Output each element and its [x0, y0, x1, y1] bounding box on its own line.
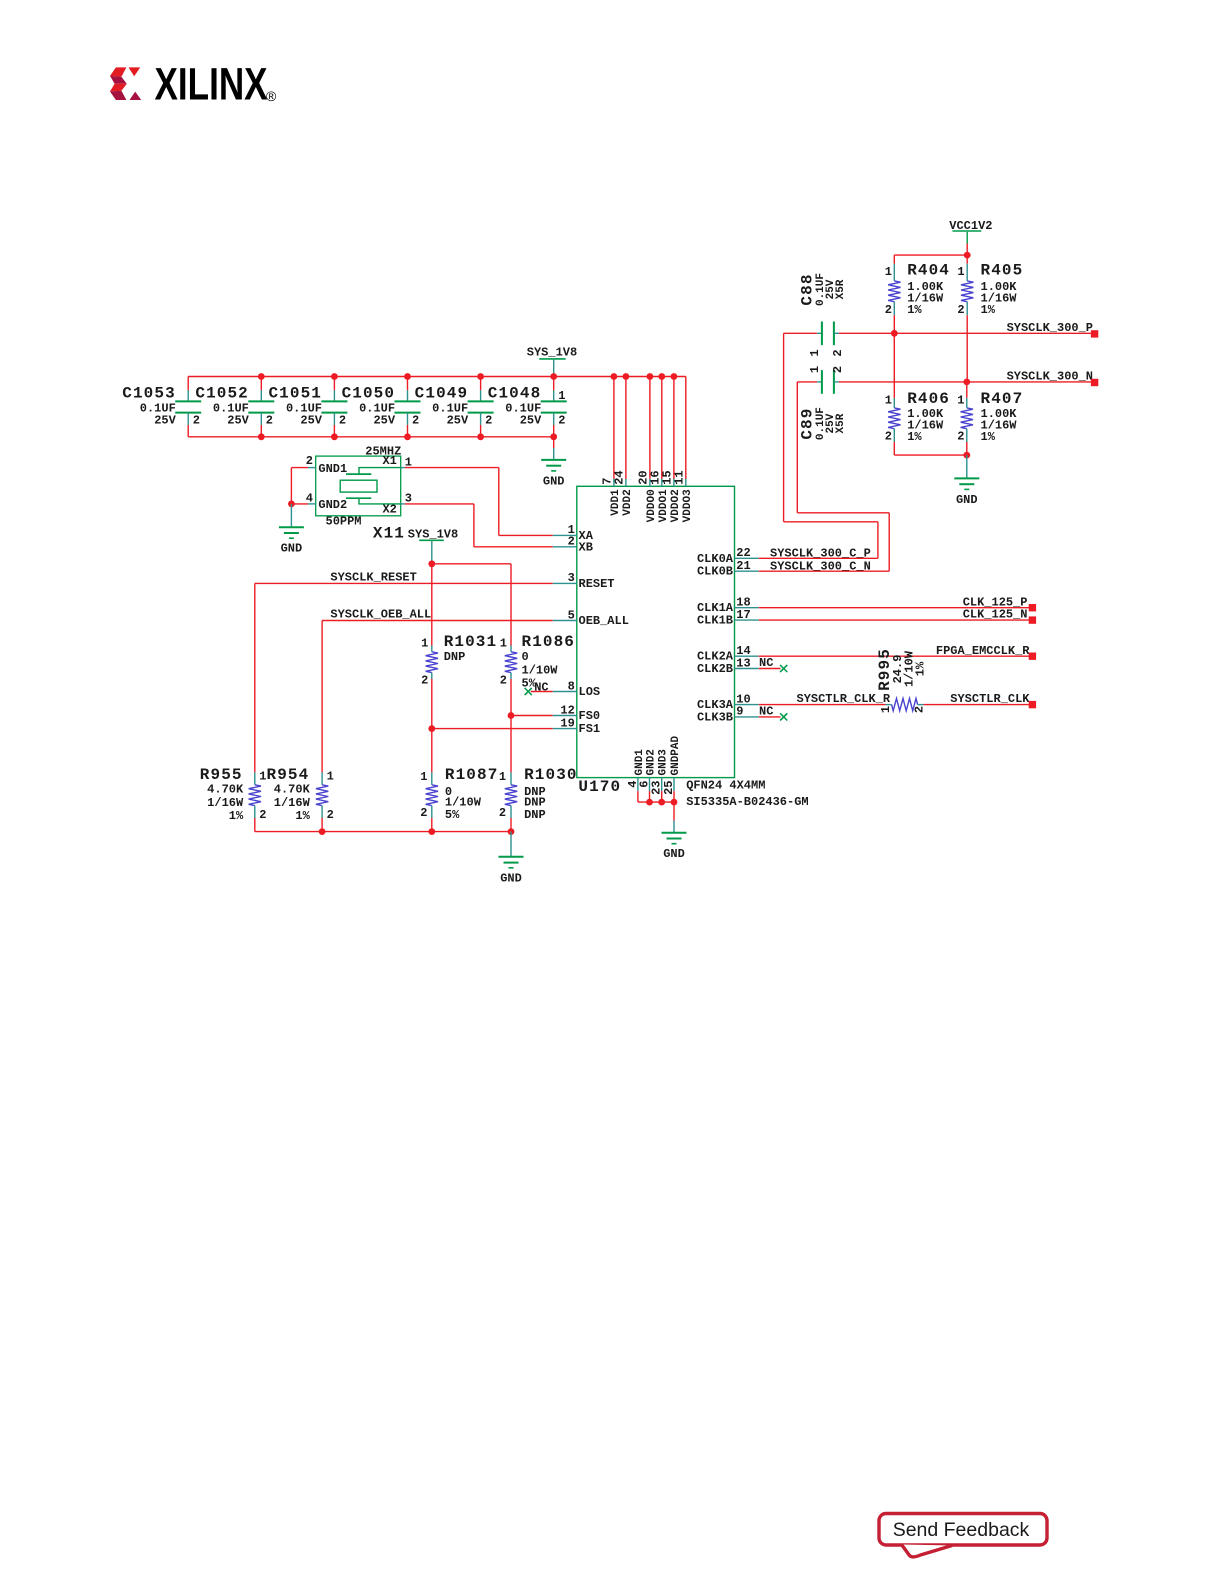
svg-text:C88: C88 — [799, 273, 817, 305]
svg-text:2: 2 — [568, 535, 575, 549]
pin 13 CLK2B — [697, 656, 759, 676]
svg-text:25V: 25V — [447, 414, 469, 428]
svg-text:1: 1 — [558, 389, 565, 403]
svg-text:19: 19 — [560, 716, 574, 730]
wire chip gnd down — [673, 802, 675, 820]
svg-text:R1086: R1086 — [522, 633, 576, 651]
svg-text:1%: 1% — [907, 430, 922, 444]
wire VDD supply to pin 20 — [649, 377, 651, 480]
svg-text:22: 22 — [736, 546, 750, 560]
power net VCC1V2 — [949, 219, 992, 244]
capacitor C1048 — [488, 377, 567, 437]
wire CLK2A to FPGA_EMCCLK_R — [759, 655, 1029, 657]
svg-text:2: 2 — [885, 303, 892, 317]
svg-text:50PPM: 50PPM — [326, 515, 362, 529]
wire GNDPAD stub to rail — [673, 791, 675, 802]
svg-text:NC: NC — [534, 681, 548, 695]
svg-text:X1: X1 — [382, 454, 396, 468]
pin 1 XA — [553, 523, 594, 543]
resistor R995 — [876, 648, 928, 713]
wire VCC1V2 down to junction — [966, 244, 968, 256]
wire GND1 pin2 to ground — [291, 468, 315, 504]
no-connect CLK2B — [759, 656, 788, 672]
svg-text:CLK0A: CLK0A — [697, 552, 734, 566]
wire C88 to CLK0A loop — [784, 333, 878, 558]
svg-text:U170: U170 — [578, 778, 621, 796]
svg-text:C1051: C1051 — [268, 384, 322, 402]
svg-text:2: 2 — [831, 366, 845, 373]
wire SYS_1V8 top bus — [188, 376, 686, 378]
svg-text:GND: GND — [281, 542, 303, 556]
ground GND (crystal) — [279, 527, 304, 556]
pin 5 OEB_ALL — [553, 608, 629, 628]
Xilinx logo mark — [110, 67, 141, 100]
svg-text:1: 1 — [885, 265, 892, 279]
wire GND2 pin4 to ground — [291, 503, 315, 505]
svg-text:25V: 25V — [520, 414, 542, 428]
power net SYS_1V8 — [527, 345, 577, 376]
node R406/R407 gnd junction — [963, 452, 970, 459]
svg-text:R1030: R1030 — [524, 766, 578, 784]
svg-text:C1052: C1052 — [195, 384, 249, 402]
pin 17 CLK1B — [697, 608, 759, 628]
svg-text:25V: 25V — [154, 414, 176, 428]
resistor R404 — [885, 255, 950, 333]
svg-text:1/10W: 1/10W — [522, 663, 559, 677]
wire chip gnd rail — [638, 801, 674, 803]
op-amp U1 equivalent: IC U170 body — [577, 486, 735, 777]
node rail R1087 — [428, 828, 435, 835]
pin 25 GNDPAD — [662, 735, 682, 794]
svg-text:X5R: X5R — [835, 279, 847, 299]
wire rail down to GND — [510, 832, 512, 857]
node rail R954 — [319, 828, 326, 835]
wire VDD supply to pin 7 — [613, 377, 615, 480]
node C1050 bottom bus junction — [404, 433, 411, 440]
capacitor C89 — [799, 366, 847, 440]
svg-text:CLK2B: CLK2B — [697, 662, 733, 676]
svg-text:1: 1 — [885, 394, 892, 408]
svg-text:SYSCLK_OEB_ALL: SYSCLK_OEB_ALL — [330, 608, 431, 622]
svg-text:1: 1 — [500, 636, 507, 650]
svg-text:CLK0B: CLK0B — [697, 565, 733, 579]
svg-text:2: 2 — [421, 674, 428, 688]
svg-text:1: 1 — [327, 770, 334, 784]
svg-text:1: 1 — [957, 394, 964, 408]
svg-text:SYSCLK_300_C_N: SYSCLK_300_C_N — [770, 559, 871, 573]
pin 12 FS0 — [553, 703, 600, 723]
svg-text:CLK_125_N: CLK_125_N — [963, 608, 1028, 622]
svg-text:SYSCTLR_CLK: SYSCTLR_CLK — [950, 692, 1030, 706]
svg-text:FPGA_EMCCLK_R: FPGA_EMCCLK_R — [936, 644, 1030, 658]
wire bottom capacitor bus — [188, 436, 554, 438]
svg-text:VDD1: VDD1 — [610, 489, 622, 516]
pin 7 VDD1 — [601, 478, 622, 516]
svg-text:GNDPAD: GNDPAD — [670, 735, 682, 775]
wire VDD supply to pin 11 — [685, 377, 687, 480]
wire GND1 to rail — [637, 791, 639, 802]
capacitor C1050 — [342, 377, 421, 437]
wire R1031 line to R1087 — [431, 729, 433, 773]
wire CLK0B to SYSCLK_300_C_N — [759, 570, 889, 572]
wire VDD supply to pin 24 — [625, 377, 627, 480]
svg-text:VDDO1: VDDO1 — [658, 489, 670, 522]
node C1051 top bus junction — [331, 373, 338, 380]
pin 14 CLK2A — [697, 644, 759, 664]
node C1052 bottom bus junction — [258, 433, 265, 440]
node bus junction pin 16 — [658, 373, 665, 380]
node R404/C88 junction on SYSCLK_300_P — [891, 330, 898, 337]
wire X1 pin1 to XA — [401, 468, 553, 536]
svg-text:VDDO0: VDDO0 — [646, 489, 658, 522]
wire R1086 line to R1030 — [510, 716, 512, 773]
capacitor C1049 — [415, 377, 494, 437]
resistor R955 — [200, 766, 267, 832]
terminal SYSCTLR_CLK — [1029, 701, 1036, 708]
terminal CLK_125_N — [1029, 616, 1036, 623]
svg-text:1: 1 — [957, 265, 964, 279]
svg-text:R1087: R1087 — [445, 766, 499, 784]
svg-text:GND1: GND1 — [634, 749, 646, 776]
wire CLK3A to R995 — [759, 704, 886, 706]
svg-text:3: 3 — [568, 571, 575, 585]
svg-text:25V: 25V — [300, 414, 322, 428]
node GND2 junction — [646, 799, 653, 806]
svg-text:2: 2 — [500, 674, 507, 688]
svg-text:SYS_1V8: SYS_1V8 — [408, 528, 458, 542]
wire VDD supply to pin 16 — [661, 377, 663, 480]
svg-text:C89: C89 — [799, 408, 817, 440]
svg-text:FS1: FS1 — [579, 722, 601, 736]
Xilinx logo text — [155, 58, 268, 109]
svg-text:12: 12 — [560, 703, 574, 717]
terminal SYSCLK_300_P — [1091, 330, 1098, 337]
svg-text:17: 17 — [736, 608, 750, 622]
wire junction down to GND — [290, 504, 292, 527]
svg-text:1%: 1% — [981, 303, 996, 317]
svg-text:R406: R406 — [907, 390, 950, 408]
pin 23 GND3 — [650, 749, 670, 795]
svg-text:XB: XB — [579, 540, 593, 554]
svg-text:2: 2 — [485, 414, 492, 428]
svg-text:C1048: C1048 — [488, 384, 542, 402]
svg-text:2: 2 — [412, 414, 419, 428]
svg-text:5%: 5% — [445, 808, 460, 822]
wire C1048 to GND — [553, 437, 555, 448]
svg-text:4.70K: 4.70K — [207, 783, 244, 797]
node C1048 bottom bus junction — [550, 433, 557, 440]
wire SYSCLK_300_N — [839, 381, 1091, 383]
svg-text:1%: 1% — [907, 303, 922, 317]
svg-text:8: 8 — [568, 679, 575, 693]
svg-text:X11: X11 — [373, 525, 405, 543]
pin 16 VDDO1 — [648, 470, 669, 522]
svg-text:NC: NC — [759, 656, 773, 670]
svg-text:1: 1 — [499, 770, 506, 784]
pin 24 VDD2 — [613, 470, 634, 515]
ground GND (R406/R407) — [954, 478, 979, 507]
resistor R1031 — [421, 633, 497, 688]
svg-text:R1031: R1031 — [444, 633, 498, 651]
svg-text:2: 2 — [306, 454, 313, 468]
svg-text:SYSCLK_300_P: SYSCLK_300_P — [1007, 321, 1093, 335]
resistor R1087 — [420, 766, 498, 832]
terminal FPGA_EMCCLK_R — [1029, 653, 1036, 660]
wire CLK1B to CLK_125_N — [759, 619, 1029, 621]
svg-text:2: 2 — [957, 430, 964, 444]
svg-text:C1050: C1050 — [342, 384, 396, 402]
svg-text:R407: R407 — [981, 390, 1024, 408]
svg-text:1: 1 — [808, 366, 822, 373]
pin 2 XB — [553, 535, 593, 555]
svg-text:GND2: GND2 — [646, 749, 658, 775]
svg-text:GND: GND — [500, 871, 522, 885]
svg-text:1: 1 — [421, 636, 428, 650]
terminal CLK_125_P — [1029, 604, 1036, 611]
node C1048 top bus junction — [550, 373, 557, 380]
svg-text:C1053: C1053 — [122, 384, 176, 402]
ground GND (chip) — [662, 833, 687, 862]
resistor R407 — [957, 382, 1023, 455]
wire R995 to SYSCTLR_CLK — [924, 704, 1029, 706]
svg-text:R955: R955 — [200, 766, 243, 784]
svg-text:2: 2 — [420, 806, 427, 820]
svg-text:1: 1 — [879, 706, 893, 713]
resistor R1030 — [499, 766, 578, 832]
svg-text:VDDO2: VDDO2 — [670, 489, 682, 522]
svg-text:Send Feedback: Send Feedback — [893, 1519, 1030, 1541]
wire FS1 — [432, 728, 553, 730]
svg-text:2: 2 — [912, 706, 926, 713]
node C1051 bottom bus junction — [331, 433, 338, 440]
wire SYSCLK_RESET — [255, 583, 553, 772]
wire CLK0A to SYSCLK_300_C_P — [759, 557, 878, 559]
no-connect LOS — [525, 681, 553, 696]
svg-text:GND1: GND1 — [318, 462, 347, 476]
svg-text:OEB_ALL: OEB_ALL — [579, 614, 629, 628]
pin 3 RESET — [553, 571, 615, 591]
node SYS_1V8 tap junction — [428, 560, 435, 567]
svg-text:®: ® — [266, 88, 277, 104]
svg-text:SYSCLK_300_C_P: SYSCLK_300_C_P — [770, 546, 871, 560]
resistor R1086 — [500, 633, 575, 691]
svg-text:DNP: DNP — [444, 650, 466, 664]
wire SYS_1V8 tap to R1031/R1086 — [432, 564, 511, 646]
svg-text:SYSCTLR_CLK_R: SYSCTLR_CLK_R — [797, 692, 891, 706]
svg-text:2: 2 — [499, 806, 506, 820]
svg-text:C1049: C1049 — [415, 384, 469, 402]
pin 9 CLK3B — [697, 705, 759, 725]
node rail R1030 — [508, 828, 515, 835]
node crystal gnd junction — [288, 501, 295, 508]
svg-text:0: 0 — [522, 650, 529, 664]
svg-text:CLK1B: CLK1B — [697, 614, 733, 628]
svg-text:XILINX: XILINX — [155, 58, 268, 109]
svg-text:4.70K: 4.70K — [274, 783, 311, 797]
svg-text:GND: GND — [663, 847, 685, 861]
svg-text:5: 5 — [568, 608, 575, 622]
svg-text:VDDO3: VDDO3 — [682, 489, 694, 522]
svg-text:SYS_1V8: SYS_1V8 — [527, 345, 577, 359]
svg-text:2: 2 — [193, 414, 200, 428]
svg-text:13: 13 — [736, 656, 750, 670]
node FS0 junction — [508, 712, 515, 719]
svg-text:1: 1 — [420, 770, 427, 784]
svg-text:RESET: RESET — [579, 577, 615, 591]
pin 10 CLK3A — [697, 692, 759, 712]
svg-text:1%: 1% — [981, 430, 996, 444]
svg-text:NC: NC — [759, 704, 773, 718]
power net SYS_1V8 (X11 tap) — [408, 528, 458, 564]
pin 6 GND2 — [638, 749, 658, 791]
svg-text:2: 2 — [957, 303, 964, 317]
svg-text:1/16W: 1/16W — [207, 796, 244, 810]
Send Feedback button — [879, 1514, 1047, 1557]
svg-text:1%: 1% — [914, 661, 928, 676]
pin 8 LOS — [553, 679, 600, 699]
resistor R406 — [885, 333, 950, 455]
node C1052 top bus junction — [258, 373, 265, 380]
wire R406 bottom to R407 bottom — [894, 454, 967, 456]
wire R1086 to FS0 junction — [510, 679, 512, 716]
wire CLK1A to CLK_125_P — [759, 607, 1029, 609]
capacitor C1053 — [122, 377, 201, 437]
svg-text:GND: GND — [956, 493, 978, 507]
pin 20 VDDO0 — [637, 470, 658, 522]
wire GND3 stub to rail — [661, 791, 663, 802]
svg-text:SYSCLK_300_N: SYSCLK_300_N — [1007, 370, 1093, 384]
pin 15 VDDO2 — [661, 470, 682, 522]
svg-text:X2: X2 — [382, 503, 396, 517]
svg-text:R404: R404 — [907, 261, 950, 279]
no-connect CLK3B — [759, 704, 788, 720]
svg-text:2: 2 — [327, 808, 334, 822]
pin 21 CLK0B — [697, 559, 759, 579]
svg-text:25V: 25V — [227, 414, 249, 428]
svg-text:SYSCLK_RESET: SYSCLK_RESET — [330, 571, 416, 585]
svg-text:GND: GND — [543, 474, 565, 488]
capacitor C1051 — [268, 377, 347, 437]
svg-text:GND2: GND2 — [318, 498, 347, 512]
node GND3 junction — [658, 799, 665, 806]
wire VDD supply to pin 15 — [673, 377, 675, 480]
wire C89 to CLK0B loop — [797, 382, 889, 571]
capacitor C1052 — [195, 377, 274, 437]
svg-text:21: 21 — [736, 559, 750, 573]
resistor R954 — [267, 766, 334, 832]
ground GND (capacitor bank) — [541, 460, 566, 489]
svg-text:QFN24 4X4MM: QFN24 4X4MM — [686, 778, 765, 792]
svg-text:24: 24 — [613, 470, 627, 484]
svg-text:1%: 1% — [295, 809, 310, 823]
wire GND2 stub to rail — [649, 791, 651, 802]
svg-text:VDD2: VDD2 — [622, 489, 634, 515]
node C1049 bottom bus junction — [477, 433, 484, 440]
svg-text:2: 2 — [885, 430, 892, 444]
svg-text:R954: R954 — [267, 766, 310, 784]
node R405/R407 junction on SYSCLK_300_N — [963, 379, 970, 386]
svg-text:11: 11 — [672, 470, 686, 484]
node bus junction pin 15 — [671, 373, 678, 380]
svg-text:2: 2 — [266, 414, 273, 428]
pin 18 CLK1A — [697, 596, 759, 616]
wire FS0 — [511, 715, 553, 717]
svg-text:9: 9 — [736, 705, 743, 719]
svg-text:DNP: DNP — [524, 808, 546, 822]
pin 11 VDDO3 — [672, 470, 693, 522]
capacitor C88 — [799, 273, 847, 357]
pin 19 FS1 — [553, 716, 600, 736]
svg-text:1: 1 — [259, 770, 266, 784]
resistor R405 — [957, 255, 1023, 382]
svg-text:1%: 1% — [229, 809, 244, 823]
svg-text:CLK3B: CLK3B — [697, 710, 733, 724]
svg-text:1: 1 — [808, 349, 822, 356]
node C1049 top bus junction — [477, 373, 484, 380]
pin 4 GND1 — [626, 749, 646, 791]
svg-text:1/16W: 1/16W — [274, 796, 311, 810]
svg-text:25V: 25V — [373, 414, 395, 428]
wire X2 pin3 to XB — [401, 504, 553, 547]
pin 22 CLK0A — [697, 546, 759, 566]
svg-text:GND3: GND3 — [658, 749, 670, 776]
wire junction down to GND — [966, 455, 968, 478]
svg-text:X5R: X5R — [835, 413, 847, 433]
node VCC junction — [964, 252, 971, 259]
wire VCC junction horizontal to R404 — [894, 254, 967, 256]
svg-text:2: 2 — [831, 349, 845, 356]
node GNDPAD junction — [671, 799, 678, 806]
svg-text:2: 2 — [339, 414, 346, 428]
svg-text:2: 2 — [259, 808, 266, 822]
svg-text:R405: R405 — [981, 261, 1024, 279]
node bus junction pin 24 — [623, 373, 630, 380]
node bus junction pin 20 — [647, 373, 654, 380]
svg-text:2: 2 — [558, 414, 565, 428]
terminal SYSCLK_300_N — [1091, 379, 1098, 386]
wire R1031 to FS1 junction — [431, 679, 433, 729]
svg-text:FS0: FS0 — [579, 709, 601, 723]
wire bottom ground rail — [255, 831, 511, 833]
node bus junction pin 7 — [611, 373, 618, 380]
svg-text:LOS: LOS — [579, 685, 601, 699]
node C1050 top bus junction — [404, 373, 411, 380]
ground GND (rail) — [499, 857, 524, 886]
crystal X11 25MHZ — [306, 444, 412, 528]
wire SYSCLK_300_P — [839, 332, 1091, 334]
svg-text:SI5335A-B02436-GM: SI5335A-B02436-GM — [686, 795, 808, 809]
wire SYSCLK_OEB_ALL — [322, 621, 553, 773]
node FS1 junction — [428, 725, 435, 732]
